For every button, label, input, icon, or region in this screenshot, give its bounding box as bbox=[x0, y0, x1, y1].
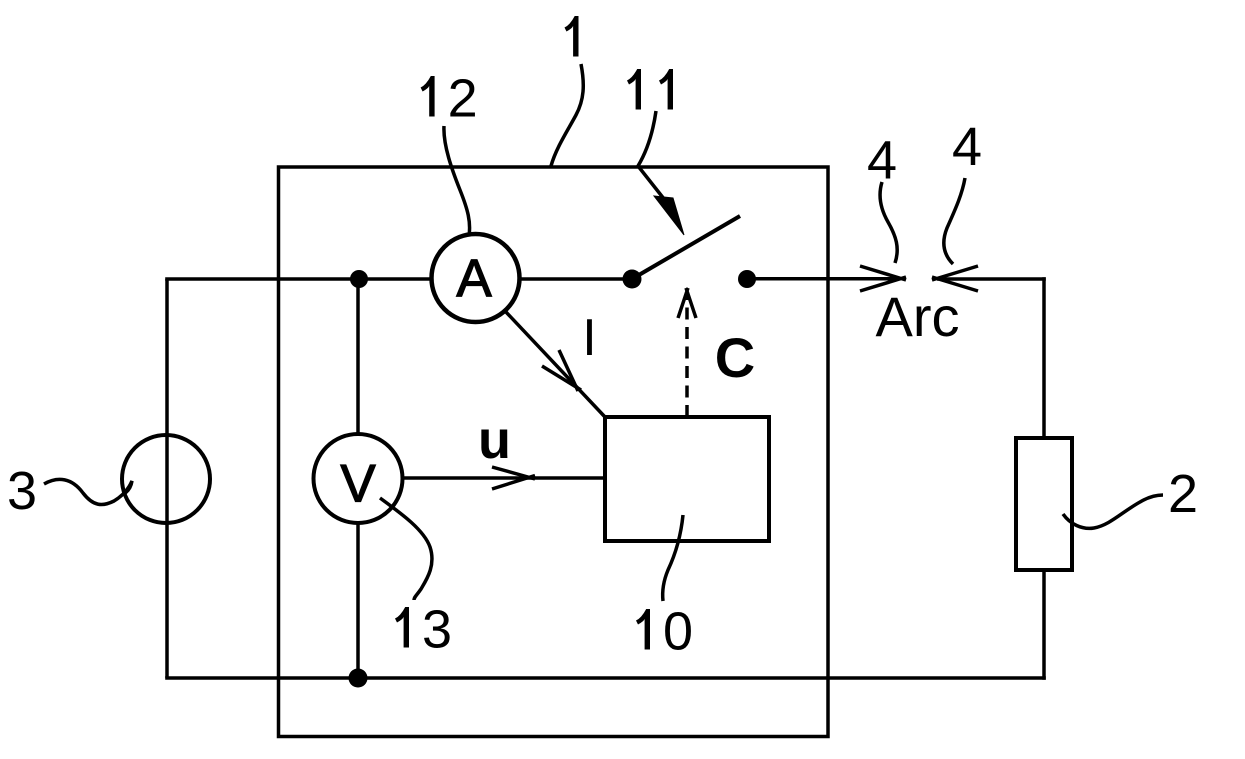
svg-text:C: C bbox=[715, 326, 755, 389]
label 10 bbox=[636, 609, 650, 650]
wire bottom of outer loop bbox=[165, 676, 1046, 680]
label 12 bbox=[421, 76, 435, 117]
junction dot top left bbox=[350, 270, 368, 288]
leader for label 4 right bbox=[944, 178, 965, 264]
svg-text:0: 0 bbox=[663, 602, 693, 662]
leader arrow for label 11 bbox=[638, 111, 668, 204]
arrowhead C bbox=[678, 288, 696, 318]
svg-text:Arc: Arc bbox=[876, 285, 960, 348]
svg-text:2: 2 bbox=[1168, 464, 1198, 524]
leader for label 2 bbox=[1063, 495, 1163, 528]
svg-text:3: 3 bbox=[422, 600, 452, 660]
svg-text:3: 3 bbox=[7, 461, 37, 521]
wire top horizontal left segment bbox=[165, 277, 475, 281]
source circle 3 bbox=[122, 435, 210, 523]
wire ammeter to switch bbox=[475, 277, 632, 281]
enclosure box 1 bbox=[279, 167, 829, 737]
wire top right horizontal (arc right shaft) bbox=[937, 277, 1046, 281]
label 13 bbox=[395, 607, 409, 648]
leader for label 13 bbox=[380, 498, 432, 600]
wire I signal diagonal (ammeter to box 10) bbox=[506, 312, 605, 417]
junction dot bottom bbox=[349, 669, 368, 688]
arrowhead u bbox=[492, 467, 535, 489]
svg-text:2: 2 bbox=[448, 69, 478, 129]
wire right vertical upper (arc to resistor) bbox=[1042, 277, 1046, 438]
leader for label 10 bbox=[663, 515, 683, 601]
wire switch right dot to arc tip bbox=[747, 277, 901, 281]
resistor 2 bbox=[1016, 438, 1072, 570]
svg-text:u: u bbox=[478, 410, 511, 470]
wire left vertical of outer loop bbox=[165, 279, 169, 678]
leader for label 1 bbox=[551, 64, 583, 166]
label 11 bbox=[627, 69, 641, 110]
control unit box 10 bbox=[605, 417, 769, 541]
svg-text:4: 4 bbox=[867, 131, 897, 191]
voltmeter U13 circle bbox=[314, 434, 403, 523]
junction dot switch left bbox=[623, 270, 642, 289]
leader for label 12 bbox=[444, 126, 470, 236]
switch blade 11 bbox=[632, 216, 740, 279]
arrowhead I bbox=[542, 350, 581, 391]
junction dot switch right bbox=[738, 270, 756, 288]
svg-text:V: V bbox=[340, 455, 376, 514]
wire u signal (voltmeter to box 10) bbox=[402, 476, 605, 480]
ammeter U12 circle bbox=[432, 234, 520, 322]
arc arrowhead right bbox=[932, 266, 978, 291]
svg-text:A: A bbox=[456, 249, 492, 308]
arrowhead 11 bbox=[654, 196, 684, 235]
wire voltmeter branch vertical bbox=[356, 279, 360, 678]
leader for label 3 bbox=[44, 479, 132, 504]
svg-text:4: 4 bbox=[952, 117, 982, 177]
arc arrowhead left bbox=[860, 266, 906, 291]
wire right vertical lower (resistor to bottom) bbox=[1042, 570, 1046, 680]
leader for label 4 left bbox=[880, 182, 897, 263]
dashed wire C (box 10 up to switch gap) bbox=[685, 292, 689, 417]
svg-text:I: I bbox=[582, 309, 596, 367]
label 1 bbox=[565, 16, 579, 57]
